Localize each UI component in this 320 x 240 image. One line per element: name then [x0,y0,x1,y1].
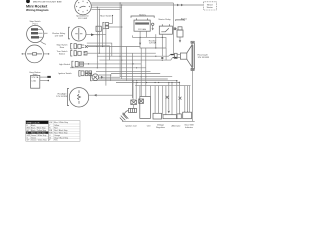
svg-text:Light Switch: Light Switch [59,63,71,66]
svg-text:Ignition Switch: Ignition Switch [58,72,72,75]
svg-text:Green / Yellow Strip: Green / Yellow Strip [31,139,47,142]
svg-text:12V 2A: 12V 2A [31,76,38,79]
svg-text:12V 10W: 12V 10W [55,35,64,37]
svg-text:Main Switch: Main Switch [100,14,112,17]
svg-text:Ignition Coil: Ignition Coil [126,125,137,128]
svg-text:Indicator: Indicator [185,126,193,129]
svg-text:Wiring Diagram: Wiring Diagram [26,8,49,12]
svg-text:Gear Shift: Gear Shift [184,124,194,127]
svg-text:Alternator: Alternator [171,125,180,128]
svg-text:Button: Button [59,53,66,56]
svg-text:12V 4Ah: 12V 4Ah [138,28,147,31]
svg-text:Starter Relay: Starter Relay [158,18,171,21]
svg-text:Regulator: Regulator [156,126,165,129]
svg-text:Rear: Rear [60,46,65,49]
svg-text:Blue / White Strip: Blue / White Strip [54,121,68,124]
svg-text:Pink: Pink [54,140,58,142]
svg-text:MINI POCKET ROCKET BIKE: MINI POCKET ROCKET BIKE [33,1,62,3]
svg-text:L/W: L/W [49,122,52,124]
svg-text:12V 3.4W: 12V 3.4W [78,18,87,20]
svg-text:Voltage: Voltage [157,124,165,127]
svg-text:CDI: CDI [147,126,151,128]
svg-text:12V 8A: 12V 8A [149,42,156,45]
svg-text:12V 35/35W: 12V 35/35W [56,96,67,98]
svg-text:1.5A: 1.5A [31,79,36,82]
svg-text:Starter: Starter [207,6,214,9]
svg-text:12V 35/35W: 12V 35/35W [198,57,209,59]
